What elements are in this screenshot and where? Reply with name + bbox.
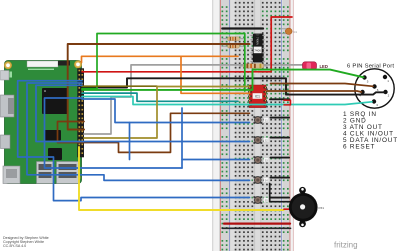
- wire red 5V: [82, 17, 292, 72]
- pushbutton S4: [253, 176, 269, 183]
- svg-text:6 PIN Serial Port: 6 PIN Serial Port: [347, 63, 394, 69]
- wire cyan ATN: [82, 97, 372, 105]
- wire black GND to DIN: [82, 78, 385, 94]
- wire blue4: [27, 83, 250, 180]
- wire blue3b: [182, 159, 250, 161]
- capacitor C1: [280, 28, 297, 34]
- wire black jumper mid: [270, 98, 290, 100]
- wire blue2: [36, 85, 250, 141]
- piezo buzzer PZ1: [289, 187, 325, 227]
- svg-text:6 RESET: 6 RESET: [343, 144, 375, 151]
- wire blue5: [18, 81, 250, 201]
- LED D1: [303, 62, 328, 70]
- pushbutton S1: [253, 116, 269, 123]
- wire orange: [82, 56, 239, 62]
- wire black stub 140.3: [271, 137, 290, 139]
- wire buzzer red: [284, 208, 291, 210]
- resistor R3: [240, 64, 268, 74]
- wire black stub 120.3: [271, 117, 290, 119]
- pushbutton S3: [253, 156, 269, 163]
- wire brown top: [68, 44, 250, 130]
- wire black stub 200.3: [271, 197, 290, 199]
- module IC1 (red breakout): [248, 85, 267, 108]
- resistor R2: [222, 44, 246, 48]
- pushbutton S2: [253, 136, 269, 143]
- svg-text:7406: 7406: [254, 49, 261, 53]
- wire brown DIN4: [267, 91, 362, 92]
- wire tan-olive: [84, 87, 250, 139]
- wire black jumper top: [222, 27, 263, 29]
- wire brown DIN6: [271, 84, 374, 87]
- wire buzzer black: [270, 184, 290, 202]
- IC U1 7406: [250, 34, 264, 62]
- wire grey LED: [84, 65, 303, 134]
- wire red bottom: [224, 223, 290, 225]
- svg-text:IC1: IC1: [255, 95, 260, 99]
- wire red bracket: [284, 100, 291, 105]
- svg-text:LED: LED: [320, 64, 328, 69]
- wire brown loop: [58, 113, 250, 152]
- pushbutton S5: [253, 196, 269, 203]
- svg-text:C1: C1: [294, 30, 298, 34]
- wire blue3a: [45, 98, 183, 168]
- wire blue1: [82, 99, 250, 123]
- wire green2 DATA: [82, 70, 364, 90]
- wire orange drop: [181, 56, 250, 93]
- breadboard: [212, 0, 293, 251]
- wire blue riser: [181, 108, 183, 168]
- resistor R1: [222, 37, 246, 41]
- wire blue riser2: [129, 123, 131, 160]
- DIN-6 serial connector J1: [355, 69, 394, 108]
- wire black bottom: [222, 227, 290, 229]
- svg-text:CC-BY-SA 4.0: CC-BY-SA 4.0: [3, 244, 26, 248]
- svg-text:PZ1: PZ1: [319, 206, 325, 210]
- wire olive1: [82, 85, 157, 87]
- wire teal: [82, 93, 238, 101]
- wire green1: [82, 34, 245, 92]
- Raspberry Pi 3: [1, 61, 85, 184]
- wire yellow: [79, 147, 284, 210]
- wire black stub 160.3: [271, 157, 290, 159]
- svg-text:7406N: 7406N: [255, 37, 259, 45]
- wire black stub 180.3: [271, 177, 290, 179]
- svg-text:fritzing: fritzing: [334, 241, 358, 250]
